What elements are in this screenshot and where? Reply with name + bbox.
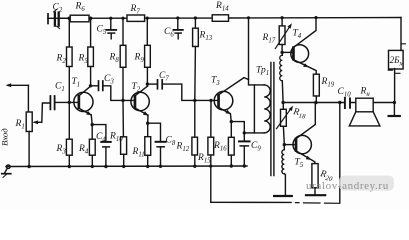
resistor R19 — [313, 74, 319, 102]
node junction R3/bottom rail — [68, 165, 71, 168]
node junction C9/bottom rail — [243, 164, 246, 167]
bottom rail — [6, 165, 247, 168]
wire T1 emitter down — [91, 115, 92, 140]
svg-text:Вход: Вход — [0, 128, 10, 146]
resistor R20 — [312, 164, 318, 195]
transformer secondary lower winding — [282, 145, 286, 196]
resistor R3 column — [66, 102, 72, 166]
top rail — [48, 17, 401, 20]
input arrow — [6, 83, 29, 87]
node junction C4/bottom rail — [104, 165, 107, 168]
svg-text:R13: R13 — [199, 31, 213, 43]
wire battery drop from rail — [400, 18, 402, 51]
svg-text:C2: C2 — [53, 3, 63, 15]
svg-text:C3: C3 — [104, 74, 114, 86]
node junction T4 base — [280, 51, 283, 54]
resistor R14 — [212, 15, 228, 21]
resistor R10 — [121, 100, 127, 166]
node junction R5/rail — [89, 17, 93, 21]
svg-text:R4: R4 — [78, 144, 89, 156]
resistor R16 — [228, 137, 234, 166]
capacitor C4 — [92, 125, 111, 167]
svg-text:Т2: Т2 — [132, 82, 141, 94]
variable resistor R17 — [275, 18, 292, 53]
wire T2 emitter down — [147, 115, 149, 137]
resistor R8 column — [120, 18, 126, 100]
wire rail to transformer primary — [249, 18, 255, 85]
node junction C4/emitter — [91, 123, 94, 126]
svg-text:R2: R2 — [56, 54, 67, 66]
svg-text:C1: C1 — [55, 82, 65, 94]
svg-text:C4: C4 — [96, 132, 106, 144]
svg-text:R17: R17 — [262, 33, 276, 45]
ground under transformer — [274, 195, 292, 197]
transistor T1 — [74, 86, 93, 115]
node junction C8/emitter — [146, 122, 149, 125]
node junction R8/rail — [121, 17, 124, 20]
svg-text:R16: R16 — [213, 141, 227, 153]
wire input to R1 — [27, 85, 29, 112]
potentiometer R1 — [26, 103, 49, 167]
node junction T5 base — [283, 143, 286, 146]
node junction T2 base — [121, 99, 124, 102]
svg-text:Т1: Т1 — [72, 77, 81, 89]
resistor R15 feedback column — [208, 100, 214, 202]
svg-text:R6: R6 — [75, 2, 86, 14]
svg-text:R18: R18 — [291, 107, 307, 121]
transistor T2 — [131, 86, 149, 115]
svg-text:Rн: Rн — [360, 87, 371, 99]
transformer secondary upper winding — [280, 52, 283, 102]
svg-text:Т5: Т5 — [295, 158, 304, 170]
svg-text:C9: C9 — [251, 141, 261, 153]
svg-text:R14: R14 — [215, 1, 229, 13]
node junction R10/bottom rail — [122, 165, 125, 168]
svg-text:Т3: Т3 — [211, 76, 220, 88]
node junction base T1 — [68, 101, 71, 104]
transistor T4 — [282, 18, 316, 75]
node junction battery/output — [393, 101, 396, 104]
capacitor C1 — [50, 96, 77, 109]
svg-text:R12: R12 — [176, 142, 190, 154]
node junction R15/bottom rail — [209, 165, 212, 168]
svg-text:R9: R9 — [134, 53, 145, 65]
svg-text:R7: R7 — [130, 4, 141, 16]
node junction T2 collector/C7 — [146, 82, 149, 85]
transformer core — [271, 63, 274, 176]
transistor T5 — [284, 103, 315, 164]
capacitor C8 — [148, 123, 166, 166]
svg-text:C10: C10 — [338, 87, 352, 99]
resistor R11 — [145, 137, 151, 167]
resistor R6 — [70, 15, 89, 22]
ground right — [389, 103, 400, 117]
resistor R7 — [127, 15, 145, 21]
resistor R5 column — [88, 18, 94, 86]
output line — [283, 102, 394, 104]
node junction R9/rail — [146, 17, 149, 20]
watermark box — [339, 176, 394, 191]
resistor R13 column — [193, 18, 199, 100]
variable resistor R18 — [277, 103, 294, 145]
feedback wire vertical — [339, 103, 341, 203]
node junction R16/bottom rail — [230, 164, 233, 167]
node junction transformer drop/rail — [247, 16, 250, 19]
resistor R4 — [89, 139, 95, 166]
capacitor C5 — [106, 18, 116, 39]
svg-text:R8: R8 — [109, 53, 120, 65]
node junction R4/bottom rail — [91, 165, 94, 168]
svg-text:uralov-andrey.ru: uralov-andrey.ru — [306, 180, 389, 192]
capacitor C9 — [231, 122, 249, 166]
svg-text:Тр1: Тр1 — [256, 66, 269, 78]
node junction T3 base divider — [193, 99, 196, 102]
resistor R12 — [192, 100, 198, 166]
svg-text:2Бм: 2Бм — [390, 55, 405, 67]
transistor T3 — [214, 78, 248, 115]
node junction R2/rail — [68, 17, 72, 21]
node junction output/R18 — [281, 101, 284, 104]
node junction C6/rail — [176, 16, 179, 19]
battery 2Bm — [388, 44, 405, 103]
capacitor C7 — [147, 80, 218, 101]
feedback wire dashed continuation — [296, 202, 340, 205]
loudspeaker Rn — [349, 98, 380, 126]
feedback wire bottom — [211, 201, 291, 203]
node junction R17/rail — [281, 16, 284, 19]
capacitor C2 — [54, 9, 69, 28]
svg-text:R1: R1 — [15, 119, 25, 131]
svg-text:R3: R3 — [56, 144, 67, 156]
capacitor C6 — [173, 18, 182, 39]
svg-text:R11: R11 — [132, 147, 145, 159]
node junction C9/emitter — [230, 120, 233, 123]
node junction R11/bottom rail — [146, 165, 149, 168]
resistor R2 column — [67, 18, 73, 102]
node junction R12/bottom rail — [193, 165, 196, 168]
svg-text:C5: C5 — [97, 25, 107, 37]
node junction R13/rail — [194, 16, 197, 19]
node junction R1/bottom rail — [27, 165, 30, 168]
node junction output/feedback — [338, 101, 341, 104]
svg-text:C8: C8 — [166, 136, 176, 148]
input terminal top-left — [47, 14, 49, 24]
node junction primary bottom — [243, 131, 246, 134]
ground terminal bottom-left — [2, 165, 11, 178]
node junction C5/rail — [109, 17, 112, 20]
node junction T4 collector/rail — [314, 16, 317, 19]
capacitor C3 — [91, 81, 134, 100]
capacitor C10 — [345, 98, 350, 108]
node junction R15/T3 base line — [209, 99, 212, 102]
wire T3 emitter down — [229, 114, 232, 138]
node junction T1 collector/C3 — [89, 84, 92, 87]
svg-text:R19: R19 — [321, 77, 335, 89]
ground under R20 — [306, 194, 325, 196]
svg-text:Т4: Т4 — [293, 29, 302, 41]
svg-text:R5: R5 — [78, 54, 89, 66]
node junction C8/bottom rail — [159, 165, 162, 168]
node junction output/R19/T5 collector — [314, 101, 318, 105]
transformer Tr1 primary winding — [244, 85, 270, 133]
svg-text:C7: C7 — [159, 71, 169, 83]
resistor R9 column — [145, 18, 151, 86]
svg-text:C6: C6 — [164, 27, 174, 39]
